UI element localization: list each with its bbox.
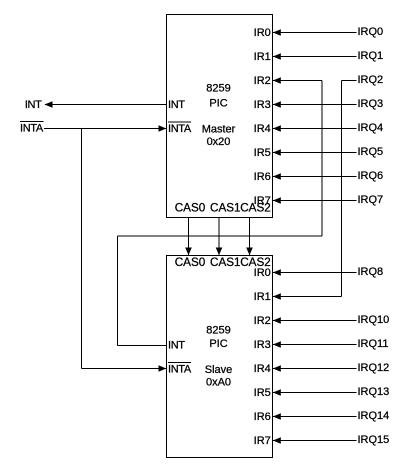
wire IRQ11 to slave IR3 <box>273 341 357 348</box>
svg-text:CAS0: CAS0 <box>175 201 206 214</box>
wire IRQ8 to slave IR0 <box>273 269 357 276</box>
wire IRQ14 to slave IR6 <box>273 413 357 420</box>
wire IRQ13 to slave IR5 <box>273 389 357 396</box>
svg-text:IR1: IR1 <box>254 291 271 303</box>
svg-text:IRQ14: IRQ14 <box>358 410 390 422</box>
wire IRQ2 vertical down to slave IR1 row <box>341 81 343 297</box>
svg-text:8259: 8259 <box>206 83 230 95</box>
svg-text:IRQ3: IRQ3 <box>358 98 384 110</box>
svg-text:CAS0: CAS0 <box>175 256 206 269</box>
svg-text:INT: INT <box>168 340 185 352</box>
svg-text:IR2: IR2 <box>254 75 271 87</box>
svg-text:IRQ2: IRQ2 <box>358 74 384 86</box>
wire IRQ2 chain into slave IR1 <box>273 293 342 300</box>
8259 master PIC box U1 <box>167 15 273 218</box>
svg-text:IRQ10: IRQ10 <box>358 314 390 326</box>
wire IRQ15 to slave IR7 <box>273 437 357 444</box>
wire CAS1 cascade, arrow down <box>216 218 223 256</box>
wire IRQ5 to master IR5 <box>273 149 357 156</box>
svg-text:IRQ6: IRQ6 <box>358 170 384 182</box>
wire vertical down-left to slave INT <box>117 236 119 346</box>
wire IRQ4 to master IR4 <box>273 125 357 132</box>
svg-text:Slave: Slave <box>205 364 233 376</box>
wire from slave INT chain into master IR2 <box>273 77 323 84</box>
svg-text:IR2: IR2 <box>254 315 271 327</box>
svg-text:IRQ12: IRQ12 <box>358 362 390 374</box>
svg-text:Master: Master <box>202 124 236 136</box>
svg-text:IR4: IR4 <box>254 123 271 135</box>
master pin labels IR0-IR7 <box>254 27 271 207</box>
wire IRQ2 stub to vertical <box>342 80 357 82</box>
svg-text:IR6: IR6 <box>254 411 271 423</box>
wire INTA into master, arrow right <box>44 125 167 132</box>
slave pin label INTA (active low) <box>168 363 192 376</box>
svg-text:IR5: IR5 <box>254 387 271 399</box>
wire IRQ1 to master IR1 <box>273 53 357 60</box>
svg-text:CAS1: CAS1 <box>210 256 241 269</box>
svg-text:IRQ1: IRQ1 <box>358 50 384 62</box>
svg-text:0x20: 0x20 <box>207 136 231 148</box>
wire CAS0 cascade, arrow down <box>185 218 192 256</box>
svg-text:IR1: IR1 <box>254 51 271 63</box>
svg-text:INT: INT <box>25 99 42 111</box>
svg-text:PIC: PIC <box>209 338 227 350</box>
wire IRQ10 to slave IR2 <box>273 317 357 324</box>
wire INT from master to external, arrow left <box>45 101 167 108</box>
svg-text:IRQ15: IRQ15 <box>358 434 390 446</box>
svg-text:INT: INT <box>168 99 185 111</box>
wire mid rail from slave INT vertical to master IR2 vertical <box>118 235 323 237</box>
node label INTA (external, active low) <box>20 122 44 135</box>
svg-text:INTA: INTA <box>168 123 192 135</box>
svg-text:IRQ8: IRQ8 <box>358 266 384 278</box>
wire IRQ6 to master IR6 <box>273 173 357 180</box>
svg-text:CAS2: CAS2 <box>240 201 271 214</box>
slave pin labels CAS0 CAS1 CAS2 <box>175 256 271 269</box>
svg-text:IR6: IR6 <box>254 171 271 183</box>
master pin label INTA (active low) <box>168 122 192 135</box>
svg-text:IR0: IR0 <box>254 27 271 39</box>
svg-text:IRQ4: IRQ4 <box>358 122 384 134</box>
master pin labels CAS0 CAS1 CAS2 <box>175 201 271 214</box>
wire vertical master-IR2 down to mid rail <box>321 81 323 237</box>
wire IRQ3 to master IR3 <box>273 101 357 108</box>
svg-text:IRQ13: IRQ13 <box>358 386 390 398</box>
svg-text:IRQ7: IRQ7 <box>358 194 384 206</box>
svg-text:0xA0: 0xA0 <box>206 377 231 389</box>
svg-text:PIC: PIC <box>209 98 227 110</box>
wire INTA into slave, arrow right <box>82 365 167 372</box>
svg-text:INTA: INTA <box>20 123 44 135</box>
wire INTA vertical run down to slave <box>81 129 83 369</box>
slave pin labels IR0-IR7 <box>254 267 271 447</box>
svg-text:IR0: IR0 <box>254 267 271 279</box>
svg-text:IR3: IR3 <box>254 99 271 111</box>
svg-text:IR3: IR3 <box>254 339 271 351</box>
wire IRQ7 to master IR7 <box>273 197 357 204</box>
wire IRQ0 to master IR0 <box>273 29 357 36</box>
svg-text:CAS1: CAS1 <box>210 201 241 214</box>
svg-text:IRQ0: IRQ0 <box>358 26 384 38</box>
svg-text:IRQ11: IRQ11 <box>358 338 389 350</box>
svg-text:IRQ5: IRQ5 <box>358 146 384 158</box>
svg-text:8259: 8259 <box>206 325 230 337</box>
wire IRQ12 to slave IR4 <box>273 365 357 372</box>
wire CAS2 cascade, arrow down <box>246 218 253 256</box>
svg-text:IR4: IR4 <box>254 363 271 375</box>
svg-text:IR5: IR5 <box>254 147 271 159</box>
wire into slave INT pin <box>118 345 167 347</box>
svg-text:INTA: INTA <box>168 364 192 376</box>
8259 slave PIC box U2 <box>167 256 273 458</box>
svg-text:IR7: IR7 <box>254 435 271 447</box>
